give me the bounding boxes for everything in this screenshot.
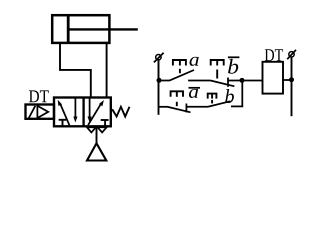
- bottom rung wire middle: [186, 106, 208, 108]
- contact a-bar blade (NC): [168, 107, 191, 112]
- right cell diagonal arrow: [88, 103, 101, 125]
- contact b-bar seat tick: [227, 78, 229, 87]
- exhaust port triangle left: [87, 127, 96, 132]
- label DT solenoid: [29, 90, 39, 102]
- right rail: [291, 57, 293, 116]
- riser to junction: [241, 80, 243, 106]
- contact b-bar actuator bracket: [211, 60, 224, 66]
- air source triangle: [87, 143, 106, 160]
- bottom rung wire left: [158, 106, 168, 108]
- wire coil to right rail: [283, 79, 292, 81]
- contact a actuator bracket: [173, 60, 186, 66]
- junction dot right rail: [289, 77, 294, 82]
- bottom rung wire right: [231, 105, 243, 107]
- wire cylinder right port to valve: [106, 43, 108, 98]
- left cell diagonal arrow: [61, 105, 70, 126]
- left terminal slash: [154, 53, 164, 63]
- junction dot before coil: [240, 78, 245, 83]
- label a-bar: [189, 89, 198, 98]
- top rung wire left: [159, 80, 169, 82]
- contact a blade (NO): [169, 70, 194, 81]
- contact b blade (NO): [209, 101, 231, 106]
- solenoid box: [26, 105, 55, 119]
- piston rod: [68, 28, 138, 30]
- right cell blocked port T: [101, 119, 109, 121]
- right cell down arrow: [89, 98, 91, 118]
- wire cylinder left port to valve: [60, 43, 91, 98]
- top rung wire middle: [188, 80, 210, 82]
- left cell down arrow: [74, 98, 76, 118]
- solenoid triangle: [37, 106, 48, 118]
- left cell blocked port T: [59, 119, 67, 121]
- label DT coil: [265, 49, 274, 61]
- cylinder body: [52, 15, 109, 43]
- valve divider: [82, 98, 84, 127]
- contact b-bar blade (NC): [211, 81, 235, 87]
- piston: [67, 15, 70, 43]
- label b-bar: [228, 59, 238, 74]
- solenoid slash: [29, 106, 36, 118]
- contact a-bar actuator bracket: [171, 91, 183, 97]
- right terminal circle: [289, 52, 294, 57]
- label a: [190, 57, 199, 66]
- contact b actuator bracket: [208, 94, 217, 99]
- supply line: [96, 126, 98, 143]
- valve body: [54, 98, 111, 127]
- coil DT box: [263, 62, 284, 94]
- exhaust port triangle right: [98, 127, 107, 132]
- spring return W: [112, 107, 129, 117]
- contact a-bar seat tick: [185, 104, 187, 113]
- right terminal slash: [287, 50, 296, 59]
- label b: [225, 89, 234, 103]
- left rail: [158, 59, 160, 115]
- top rung wire right: [228, 80, 263, 82]
- junction dot left rail: [157, 78, 162, 83]
- left terminal circle: [156, 55, 161, 60]
